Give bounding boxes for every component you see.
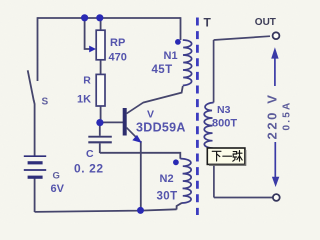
svg-text:6V: 6V: [51, 183, 65, 195]
wire capacitor to winding N2: [100, 153, 181, 159]
wire collector to N1: [143, 86, 183, 103]
svg-text:N3: N3: [217, 104, 231, 116]
winding N2 phase dot: [173, 159, 179, 165]
wire RP to R: [100, 60, 102, 75]
svg-text:3DD59A: 3DD59A: [136, 121, 186, 135]
svg-text:800T: 800T: [212, 118, 237, 130]
wire R to base node: [100, 106, 102, 122]
wire RP wiper feed: [85, 20, 90, 50]
transformer core dashed: [196, 18, 199, 216]
capacitor C plates: [88, 137, 112, 143]
wire N3 top lead: [213, 40, 215, 103]
wire switch to battery: [33, 101, 36, 156]
winding N1 phase dot: [175, 39, 181, 45]
wire secondary top: [214, 36, 270, 40]
winding N3: [204, 103, 213, 149]
wire left branch upper: [37, 17, 39, 81]
potentiometer RP wiper arrowhead: [89, 46, 96, 53]
svg-text:V: V: [147, 109, 154, 121]
switch S: [28, 70, 34, 101]
wire secondary bottom: [214, 197, 273, 199]
svg-text:N1: N1: [164, 50, 178, 62]
winding N2: [180, 159, 191, 203]
svg-text:30T: 30T: [157, 191, 178, 203]
junction dot on top rail right: [96, 14, 103, 21]
junction dot emitter to rail: [137, 207, 144, 214]
svg-text:N2: N2: [160, 173, 174, 185]
svg-text:S: S: [42, 97, 49, 108]
button next page: [207, 148, 245, 165]
battery G plates: [24, 156, 46, 177]
capacitor C bottom lead: [99, 143, 101, 153]
svg-text:R: R: [83, 74, 91, 86]
wire emitter to bottom rail: [140, 141, 142, 211]
svg-text:1K: 1K: [77, 94, 91, 106]
svg-text:G: G: [53, 171, 60, 182]
terminal OUT top: [273, 32, 280, 39]
svg-text:OUT: OUT: [255, 17, 276, 28]
wire N2 bottom lead: [177, 203, 182, 210]
wire top rail to N1: [180, 17, 182, 40]
svg-text:220 V: 220 V: [265, 93, 280, 140]
winding N1: [183, 40, 192, 86]
transistor V base bar: [123, 108, 127, 136]
svg-text:C: C: [86, 148, 94, 160]
wire base node to transistor base: [100, 121, 124, 123]
svg-text:RP: RP: [110, 37, 125, 49]
junction dot base node: [96, 119, 103, 126]
measure arrow up: [274, 54, 276, 86]
terminal OUT bottom: [273, 194, 280, 201]
measure arrow down: [274, 142, 276, 178]
wire bottom rail: [35, 209, 177, 212]
transistor V emitter arrowhead: [132, 135, 142, 143]
wire N3 bottom lead: [213, 165, 215, 198]
junction dot on top rail left: [81, 14, 88, 21]
transistor V collector lead: [127, 103, 144, 114]
capacitor C top lead: [99, 124, 101, 136]
svg-text:T: T: [204, 16, 212, 30]
resistor R body: [96, 74, 105, 106]
potentiometer RP body: [96, 30, 105, 60]
svg-text:45T: 45T: [152, 64, 173, 76]
wire top rail: [38, 17, 181, 19]
wire rail to RP top: [100, 20, 102, 31]
svg-text:470: 470: [109, 52, 127, 64]
transistor V emitter lead: [127, 128, 138, 139]
svg-text:0.5A: 0.5A: [282, 101, 293, 131]
svg-text:0. 22: 0. 22: [74, 162, 104, 176]
wire battery to bottom rail: [34, 178, 36, 212]
